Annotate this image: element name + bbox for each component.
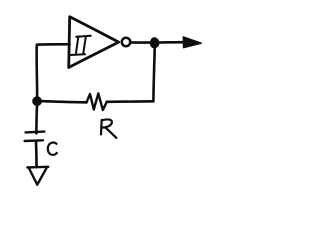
wire left horizontal from node to resistor xyxy=(37,101,86,103)
wire right vertical from output node down xyxy=(153,45,154,102)
inverter output bubble xyxy=(122,38,131,47)
capacitor C top plate xyxy=(26,130,45,133)
ground symbol xyxy=(27,167,48,185)
hysteresis symbol inside U1 xyxy=(70,36,91,55)
junction dot output node xyxy=(150,38,159,48)
wire from node A down to capacitor xyxy=(35,105,38,133)
label C xyxy=(48,143,57,155)
junction dot node A xyxy=(33,97,42,106)
wire input horizontal from left corner to inverter xyxy=(37,43,70,46)
inverter U1 triangle xyxy=(69,17,119,68)
wire left vertical feedback xyxy=(35,45,38,101)
capacitor C bottom plate xyxy=(25,139,43,142)
output arrow head xyxy=(183,37,201,48)
wire right horizontal from corner to resistor xyxy=(107,100,154,103)
wire from capacitor to ground xyxy=(35,141,38,167)
resistor R zigzag xyxy=(87,93,107,110)
wire output from bubble to arrow xyxy=(130,41,185,44)
label R xyxy=(101,119,116,137)
